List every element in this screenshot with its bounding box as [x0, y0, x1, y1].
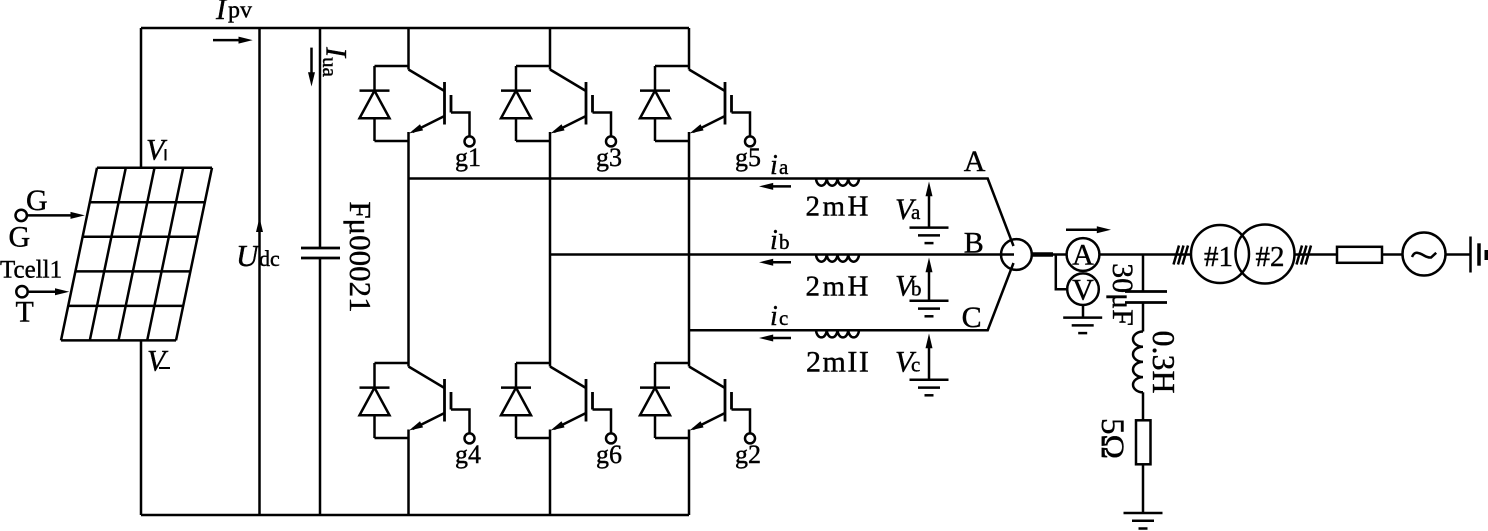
svg-text:#1: #1: [1204, 241, 1233, 273]
svg-text:i: i: [770, 225, 778, 256]
svg-text:G: G: [26, 184, 48, 217]
svg-text:C: C: [962, 301, 982, 334]
svg-text:30μF: 30μF: [1106, 263, 1139, 326]
svg-text:T: T: [16, 296, 34, 329]
svg-text:#2: #2: [1256, 241, 1285, 273]
svg-text:pv: pv: [228, 0, 252, 24]
svg-text:V: V: [147, 345, 169, 378]
svg-text:c: c: [779, 306, 788, 330]
svg-text:b: b: [911, 277, 922, 301]
svg-text:g4: g4: [455, 440, 481, 469]
svg-text:g5: g5: [735, 143, 761, 172]
svg-text:U: U: [236, 238, 261, 273]
svg-text:c: c: [911, 353, 920, 377]
svg-text:g2: g2: [735, 440, 761, 469]
svg-text:2mH: 2mH: [806, 191, 872, 223]
svg-text:g6: g6: [596, 440, 622, 469]
svg-text:Tcell1: Tcell1: [0, 257, 62, 284]
svg-text:g3: g3: [596, 143, 622, 172]
svg-text:g1: g1: [455, 143, 481, 172]
svg-text:B: B: [964, 227, 984, 260]
svg-text:G: G: [9, 221, 31, 254]
svg-text:V: V: [1072, 274, 1094, 307]
svg-text:a: a: [779, 155, 789, 179]
svg-text:dc: dc: [259, 246, 280, 271]
svg-text:Iua: Iua: [318, 46, 353, 78]
svg-text:2mH: 2mH: [806, 271, 872, 303]
svg-text:b: b: [779, 230, 790, 254]
svg-text:i: i: [770, 150, 778, 181]
svg-text:I: I: [215, 0, 228, 26]
svg-text:a: a: [911, 200, 921, 224]
svg-text:0.3H: 0.3H: [1146, 330, 1182, 393]
svg-text:A: A: [1072, 239, 1094, 272]
svg-text:Fμ00021: Fμ00021: [343, 201, 378, 312]
svg-text:2mII: 2mII: [806, 346, 870, 379]
svg-text:A: A: [964, 145, 986, 178]
svg-text:5Ω: 5Ω: [1094, 418, 1130, 459]
svg-text:i: i: [770, 301, 778, 332]
